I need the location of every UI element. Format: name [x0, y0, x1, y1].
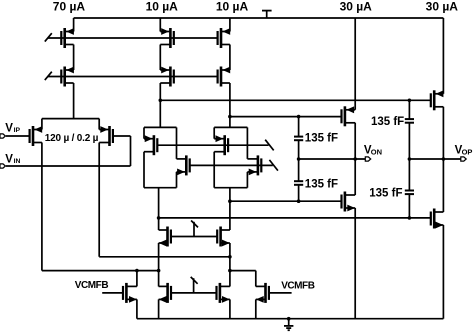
ground symbol — [284, 319, 293, 331]
transistor M20 — [215, 283, 230, 303]
wire right stack — [229, 243, 231, 287]
wire row1 gate bus — [48, 37, 218, 39]
svg-text:VCMFB: VCMFB — [281, 281, 315, 292]
transistor M18 — [216, 227, 230, 247]
wire M13 drain to M14 drain — [354, 123, 356, 195]
wire box1 right leg — [176, 127, 178, 158]
wire VON line — [299, 158, 366, 160]
wire VIP to M7 gate — [6, 135, 30, 137]
svg-text:10 µA: 10 µA — [146, 0, 179, 14]
svg-text:VCMFB: VCMFB — [75, 280, 109, 291]
wire vop-cap4 — [408, 159, 410, 190]
wire M21 gate — [102, 292, 123, 294]
wire M22 source down — [255, 299, 257, 318]
wire M6 drain down — [229, 83, 231, 127]
wire M10 drain down — [176, 172, 178, 188]
node von drain — [353, 157, 357, 161]
port VOP — [461, 157, 466, 161]
wire M12 drain down — [246, 172, 248, 188]
wire M16 source down — [442, 225, 444, 319]
label C4 value — [369, 187, 402, 199]
slash upper nmos gate — [191, 221, 198, 237]
transistor M3 — [160, 28, 175, 48]
power VDD symbol — [262, 11, 272, 18]
wire box2 out down — [229, 188, 231, 230]
capacitor C3 135fF — [405, 119, 414, 123]
wire rail to M15 — [442, 18, 444, 94]
node vop cap column — [408, 157, 412, 161]
capacitor C1 135fF — [294, 137, 303, 141]
node M6 drain — [228, 115, 232, 119]
wire box1 out down — [158, 188, 160, 230]
wire row2 gate bus — [48, 76, 218, 78]
wire ground rail — [137, 318, 444, 320]
transistor M14 — [340, 192, 355, 212]
wire box1 to M16 gate — [159, 217, 431, 219]
wire M7 drain down — [41, 143, 43, 271]
wire M8 drain down — [98, 143, 100, 257]
label VCMFB left — [75, 280, 109, 291]
node left fold — [157, 269, 161, 273]
node cap2 bottom — [297, 199, 301, 203]
node line A cap junction — [408, 99, 412, 103]
svg-text:30 µA: 30 µA — [426, 0, 459, 14]
wire M5-M6 — [229, 45, 231, 71]
node vcmfb left junction — [135, 269, 139, 273]
node cap4 bottom — [408, 216, 412, 220]
wire box1 bottom — [144, 187, 177, 189]
label C2 value — [305, 178, 338, 190]
label VOP — [455, 145, 473, 157]
wire M8 drain fold line — [99, 256, 230, 258]
wire box2 left lower — [213, 152, 215, 188]
transistor M15 — [430, 90, 444, 110]
wire left stack — [158, 243, 160, 287]
wire M14 source down — [354, 208, 356, 319]
wire M22 gate — [269, 292, 292, 294]
wire M20 source down — [229, 299, 231, 318]
label C1 value — [305, 132, 338, 144]
svg-text:ON: ON — [371, 147, 382, 156]
wire M15 drain to M16 drain — [442, 107, 444, 212]
transistor M1 — [60, 28, 74, 48]
wire M4 drain down — [159, 83, 161, 127]
transistor M13 — [340, 106, 355, 126]
wire von-cap2 — [298, 159, 300, 181]
transistor M17 — [159, 227, 172, 247]
wire VIN line — [6, 165, 131, 167]
capacitor C2 135fF — [294, 181, 303, 185]
node M4 drain — [159, 99, 163, 103]
wire lower nmos gate bus — [171, 292, 217, 294]
port VON — [365, 157, 370, 161]
label VIP — [5, 122, 20, 134]
wire box2 bottom — [214, 187, 247, 189]
transistor M16 — [430, 209, 444, 229]
node vop drain — [442, 157, 446, 161]
label 70 uA — [53, 0, 86, 14]
label 30 uA branch 1 — [340, 0, 373, 14]
wire box2 left upper — [213, 127, 215, 138]
wire box2 top — [214, 126, 247, 128]
label VIN — [5, 154, 20, 166]
svg-text:70 µA: 70 µA — [53, 0, 86, 14]
node ground — [287, 317, 291, 321]
transistor M22 vcmfb right — [256, 283, 270, 303]
wire cap3-vop — [408, 123, 410, 159]
wire tail to M7 source — [41, 119, 43, 130]
wire M8 gate right — [113, 135, 131, 137]
label 10 uA branch 1 — [146, 0, 179, 14]
wire M19 source down — [158, 299, 160, 318]
node right fold upper — [228, 255, 232, 259]
port VIP — [0, 134, 5, 138]
wire box2 to M14 gate — [230, 200, 342, 202]
wire rail to M1 — [73, 18, 75, 32]
wire cap3 top — [408, 100, 410, 118]
transistor M9 cascode — [144, 135, 158, 155]
svg-text:OP: OP — [462, 147, 473, 156]
label VON — [364, 145, 382, 157]
label 120u/0.2u — [45, 133, 99, 144]
svg-text:120 µ / 0.2 µ: 120 µ / 0.2 µ — [45, 133, 99, 144]
wire right fold to vcmfb — [230, 271, 256, 287]
wire cap4 bottom — [408, 195, 410, 218]
svg-text:V: V — [5, 122, 13, 134]
wire tail to M8 source — [98, 119, 100, 130]
wire VOP line — [409, 158, 460, 160]
transistor M5 — [217, 28, 231, 48]
transistor M11 cascode — [214, 135, 229, 155]
transistor M19 — [159, 283, 172, 303]
svg-text:135 fF: 135 fF — [305, 178, 338, 190]
svg-text:135 fF: 135 fF — [371, 116, 404, 128]
slash lower nmos gate — [191, 277, 198, 293]
svg-text:135 fF: 135 fF — [305, 132, 338, 144]
port VIN — [0, 164, 5, 168]
wire box2 right leg — [246, 127, 248, 158]
transistor M4 — [160, 67, 175, 87]
wire box1 left lower — [143, 152, 145, 188]
wire cascode gate bus upper — [157, 144, 268, 146]
transistor M12 cascode — [247, 155, 262, 175]
wire rail to M5 — [229, 18, 231, 32]
slash cascode lower — [269, 160, 278, 171]
wire VDD rail — [74, 17, 444, 19]
wire M7 drain fold line — [42, 270, 159, 272]
slash cascode upper — [265, 140, 274, 151]
wire M21 source down — [136, 299, 138, 318]
svg-text:135 fF: 135 fF — [369, 187, 402, 199]
svg-text:IN: IN — [14, 158, 21, 165]
wire rail to M3 — [159, 18, 161, 32]
node box2 out line — [228, 199, 232, 203]
transistor M7 input left — [29, 126, 43, 146]
wire line B to M13 gate — [230, 116, 342, 118]
transistor M10 cascode — [177, 155, 191, 175]
wire line A to M15 gate — [160, 99, 431, 101]
wire cap1-von — [298, 141, 300, 159]
wire box1 top — [144, 126, 177, 128]
label 10 uA branch 2 — [216, 0, 249, 14]
node box1 out line — [157, 216, 161, 220]
wire rail to M13 — [354, 18, 356, 110]
svg-text:V: V — [5, 154, 13, 166]
node line B cap junction — [297, 115, 301, 119]
wire M21 drain up — [136, 271, 138, 287]
wire cascode gate bus lower — [190, 164, 273, 166]
wire M8 gate down — [130, 136, 132, 166]
transistor M21 vcmfb left — [122, 283, 137, 303]
transistor M6 — [217, 67, 231, 87]
svg-text:30 µA: 30 µA — [340, 0, 373, 14]
node right fold lower — [228, 269, 232, 273]
transistor M2 — [60, 67, 74, 87]
slash row2 gate — [45, 72, 52, 80]
label C3 value — [371, 116, 404, 128]
svg-text:IP: IP — [14, 127, 21, 134]
wire box1 left upper — [143, 127, 145, 138]
svg-text:10 µA: 10 µA — [216, 0, 249, 14]
label 30 uA branch 2 — [426, 0, 459, 14]
wire cap2 bottom — [298, 186, 300, 202]
wire M1-M2 — [73, 45, 75, 71]
wire cap1 top — [298, 117, 300, 136]
label VCMFB right — [281, 281, 315, 292]
slash row1 gate — [45, 33, 52, 41]
wire M3-M4 — [159, 45, 161, 71]
node von cap column — [297, 157, 301, 161]
capacitor C4 135fF — [405, 191, 414, 195]
wire tail node — [42, 118, 99, 120]
wire upper nmos gate bus — [171, 236, 217, 238]
transistor M8 input right — [99, 126, 114, 146]
wire M2 drain to tail — [73, 83, 75, 119]
